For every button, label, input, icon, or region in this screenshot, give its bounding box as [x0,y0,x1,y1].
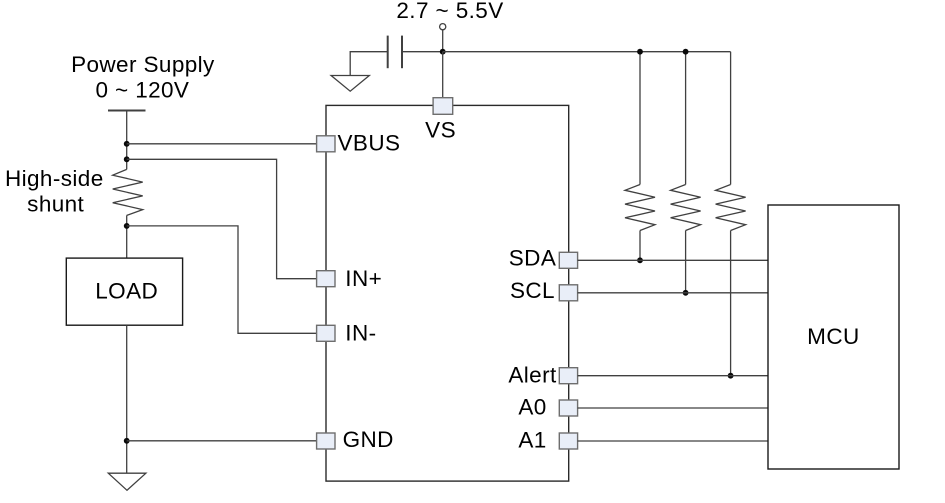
pin SDA [559,252,577,268]
svg-text:VS: VS [425,118,456,143]
wire shunt bottom to junction [126,215,128,258]
svg-text:High-side: High-side [5,166,104,191]
svg-text:2.7 ~ 5.5V: 2.7 ~ 5.5V [396,0,503,23]
wire SCL to MCU [578,292,768,294]
node junction IN- branch [124,223,130,229]
svg-text:LOAD: LOAD [95,278,158,303]
svg-text:0 ~ 120V: 0 ~ 120V [95,78,189,103]
node junction R2 SCL [683,290,689,296]
wire R2 to SCL net [685,231,687,293]
svg-text:SCL: SCL [510,278,555,303]
pin SCL [559,285,577,301]
wire R3 to Alert net [730,231,732,376]
node junction R2 top [683,49,689,55]
wire to GND pin [127,440,317,442]
pin GND [317,433,335,449]
capacitor C1 [387,36,389,69]
node junction VS [440,49,446,55]
resistor R3 [716,185,746,231]
wire capacitor to ground [350,52,388,76]
wire capacitor to VS node [402,51,443,53]
svg-text:A0: A0 [518,395,546,420]
wire VS node to VS pin [442,52,444,98]
wire to IN+ pin [127,159,317,278]
svg-text:IN+: IN+ [345,266,382,291]
resistor high-side shunt [113,169,143,215]
wire SDA to MCU [578,259,768,261]
node junction GND branch [124,438,130,444]
MCU box [768,205,899,469]
node junction R1 SDA [637,257,643,263]
wire to VBUS pin [127,143,317,145]
node junction VBUS branch [124,141,130,147]
svg-text:IN-: IN- [345,320,376,345]
node junction R3 Alert [728,373,734,379]
pull-up resistor R3 lead [730,52,732,185]
wire Alert to MCU [578,375,768,377]
pull-up resistor R2 lead [685,52,687,185]
svg-text:shunt: shunt [27,192,84,217]
pin A1 [559,433,577,449]
power supply terminal bar [108,110,146,112]
svg-text:Alert: Alert [508,363,557,388]
svg-text:Power Supply: Power Supply [71,52,215,77]
pull-up resistor R1 lead [639,52,641,185]
wire terminal to node [442,30,444,52]
svg-text:SDA: SDA [509,246,556,271]
terminal circle VS supply [440,24,446,30]
pin Alert [559,368,577,384]
wire R1 to SDA net [639,231,641,261]
svg-text:MCU: MCU [807,324,859,349]
svg-text:VBUS: VBUS [338,131,401,156]
pin VS [433,98,453,115]
node junction R1 top [637,49,643,55]
resistor R1 [625,185,655,231]
pin IN- [317,325,335,341]
ground symbol left [108,473,146,490]
svg-text:A1: A1 [518,427,546,452]
wire to IN- pin [127,226,317,333]
resistor R2 [671,185,701,231]
svg-text:GND: GND [343,427,394,452]
wire supply to shunt top [126,111,128,170]
pin IN+ [317,271,335,287]
wire supply rail to pull-ups [443,51,731,53]
pin VBUS [317,136,335,152]
pin A0 [559,400,577,416]
wire A0 to MCU [578,407,768,409]
ground symbol top [331,76,369,92]
load box [66,258,182,325]
IC current sense monitor U1 [326,105,569,481]
wire load bottom to ground [126,325,128,473]
node junction IN+ branch [124,156,130,162]
wire A1 to MCU [578,440,768,442]
